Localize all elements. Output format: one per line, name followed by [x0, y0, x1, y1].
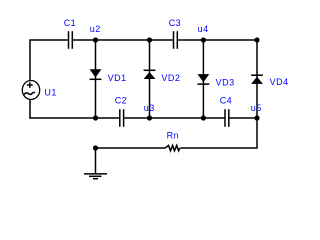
capacitor C2: [120, 109, 124, 127]
node u2 junction dot: [93, 37, 98, 42]
wire mid left segment to C2: [29, 117, 119, 119]
svg-text:C1: C1: [64, 18, 77, 28]
diode VD3: [198, 40, 210, 118]
svg-text:U1: U1: [44, 87, 57, 97]
AC source U1: [22, 81, 39, 100]
svg-text:VD2: VD2: [161, 73, 180, 83]
svg-text:u4: u4: [198, 24, 209, 34]
capacitor C4: [225, 109, 229, 127]
svg-text:VD4: VD4: [270, 77, 289, 87]
wire U1 bottom to mid wire: [29, 99, 31, 118]
node u4 junction dot: [201, 37, 206, 42]
svg-text:VD3: VD3: [216, 77, 235, 87]
ground: [84, 174, 107, 179]
wire ground stem: [95, 148, 97, 173]
wire top C3 to top-right corner: [178, 39, 257, 41]
junction dot ground node: [93, 145, 98, 150]
diode VD4: [251, 40, 263, 118]
wire right vertical u5 to bottom corner: [256, 118, 258, 148]
node u5 junction dot: [254, 115, 259, 120]
svg-text:Rn: Rn: [167, 130, 180, 140]
wire top-left corner to C1: [30, 40, 68, 81]
diode VD2: [144, 40, 156, 118]
capacitor C1: [69, 31, 73, 49]
wire bottom Rn to right corner: [181, 146, 258, 149]
wire mid C2 to C4: [124, 117, 224, 119]
junction dot VD3 bottom: [201, 115, 206, 120]
wire top C1 to C3: [73, 39, 173, 41]
svg-text:C2: C2: [115, 96, 128, 106]
junction dot VD2 top: [147, 37, 152, 42]
svg-text:VD1: VD1: [108, 73, 127, 83]
svg-text:u5: u5: [251, 103, 262, 113]
wire mid C4 to right wire: [229, 117, 257, 119]
svg-text:C4: C4: [220, 96, 233, 106]
svg-text:u2: u2: [90, 24, 101, 34]
capacitor C3: [174, 31, 178, 49]
resistor Rn: [165, 145, 180, 150]
wire bottom ground to Rn: [96, 147, 166, 149]
svg-text:C3: C3: [169, 18, 182, 28]
diode VD1: [90, 40, 102, 118]
node u3 junction dot: [147, 115, 152, 120]
junction dot top-right corner: [254, 37, 259, 42]
svg-text:u3: u3: [144, 103, 155, 113]
junction dot VD1 bottom: [93, 115, 98, 120]
